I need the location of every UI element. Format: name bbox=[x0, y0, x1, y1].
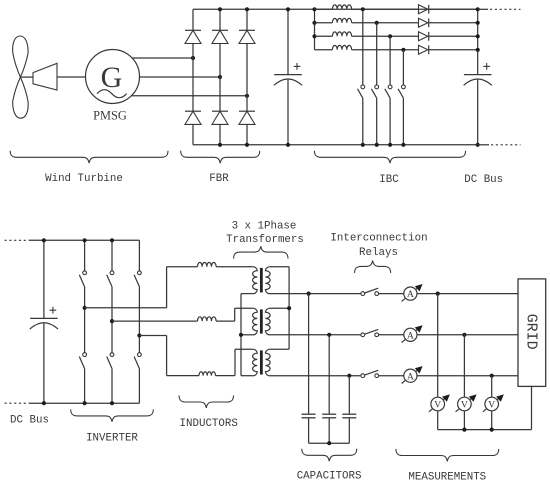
node phase c / FBR leg3 bbox=[245, 94, 249, 98]
wire line2 T2 to relay bbox=[270, 334, 361, 336]
label FBR bbox=[209, 173, 229, 185]
node DC bus row4 bbox=[476, 48, 480, 52]
wire secondary neutral bbox=[288, 267, 290, 350]
brace INDUCTORS bbox=[179, 396, 233, 408]
label PMSG bbox=[93, 109, 127, 123]
node capacitor bus centre bbox=[327, 441, 331, 445]
node IBC row4 switch tap bbox=[401, 48, 405, 52]
wire T1 secondary top lead bbox=[270, 266, 289, 268]
capacitor C4 bbox=[302, 414, 316, 418]
wire voltmeter V2 bottom lead bbox=[463, 411, 465, 430]
wire IBC input vertical bbox=[314, 9, 316, 50]
node line1 voltmeter tap bbox=[436, 292, 440, 296]
wire inverter rail top bbox=[29, 239, 140, 241]
wire DC bus vertical bbox=[477, 9, 479, 74]
svg-text:3 x 1Phase: 3 x 1Phase bbox=[232, 221, 297, 233]
label DC Bus (top) bbox=[464, 174, 503, 186]
diode D4 bbox=[185, 111, 201, 124]
wire IBC row4 right segment bbox=[429, 49, 478, 51]
wire line3 T3 to relay bbox=[270, 375, 361, 377]
ammeter A3 bbox=[402, 366, 423, 383]
wire FBR negative rail (bottom) bbox=[193, 144, 478, 146]
wire FBR leg1 middle segment bbox=[192, 44, 194, 112]
brace Wind Turbine bbox=[10, 151, 168, 163]
node C3 top rail bbox=[42, 238, 46, 242]
wire IBC row4 left segment bbox=[315, 49, 333, 51]
node C2 bottom rail bbox=[476, 143, 480, 147]
node IBC row2 switch tap bbox=[375, 21, 379, 25]
wire ammeter A3 to grid bbox=[417, 375, 518, 377]
node IBC row3 switch tap bbox=[388, 34, 392, 38]
wire C1 top lead bbox=[287, 9, 289, 74]
wire IBC row2 left segment bbox=[315, 22, 333, 24]
node DC bus row1 bbox=[476, 7, 480, 11]
label Relays bbox=[359, 247, 398, 259]
brace INVERTER bbox=[71, 409, 154, 421]
wire C4 bottom lead bbox=[308, 418, 310, 443]
transformer T2 bbox=[253, 308, 271, 335]
wire voltmeter V1 bottom lead bbox=[437, 411, 439, 430]
label IBC bbox=[379, 174, 399, 186]
wire T3 primary bottom lead bbox=[241, 375, 253, 377]
node IBC input row3 bbox=[312, 34, 316, 38]
node inverter leg2 top rail bbox=[110, 238, 114, 242]
wire voltmeter V3 bottom lead bbox=[491, 411, 493, 430]
node line3 capacitor tap bbox=[347, 374, 351, 378]
node DC bus row3 bbox=[476, 34, 480, 38]
wire IBC row2 right segment bbox=[429, 22, 478, 24]
node FBR bottom rail leg2 bbox=[218, 143, 222, 147]
wind turbine nacelle bbox=[33, 63, 57, 90]
capacitor C3 (DC bus) bbox=[30, 318, 58, 329]
wire C5 bottom lead bbox=[328, 418, 330, 443]
wire phase1 to inductor bbox=[167, 266, 198, 268]
node inverter leg2 output bbox=[110, 319, 114, 323]
wire generator phase a bbox=[132, 57, 193, 59]
inductor L1 bbox=[332, 5, 351, 9]
wire phase3 to T3 bbox=[235, 348, 253, 350]
wire FBR positive rail (top) bbox=[193, 8, 478, 10]
label INDUCTORS bbox=[180, 418, 238, 430]
transformer T1 bbox=[253, 267, 271, 294]
svg-text:A: A bbox=[407, 330, 414, 341]
svg-text:IBC: IBC bbox=[379, 174, 399, 186]
wire turbine hub to nacelle bbox=[20, 76, 33, 78]
wire C3 top lead bbox=[43, 240, 45, 318]
wire relay K1 to ammeter bbox=[378, 293, 403, 295]
switch S3 (inverter high side) bbox=[134, 240, 141, 335]
voltmeter V3 bbox=[483, 394, 504, 411]
wire primary neutral bbox=[240, 294, 242, 376]
diode D1 bbox=[185, 30, 201, 43]
wind turbine rotor blades bbox=[13, 36, 29, 118]
wire phase3 dropper bbox=[166, 336, 168, 376]
switch Q2 (IBC) bbox=[371, 23, 378, 145]
wire IBC row1 left segment bbox=[315, 8, 333, 10]
wire voltmeter V2 drop bbox=[463, 335, 465, 397]
wire C5 top lead bbox=[328, 335, 330, 414]
brace FBR bbox=[181, 151, 260, 163]
wire phase2 inductor to riser bbox=[216, 320, 235, 322]
svg-text:G: G bbox=[101, 61, 123, 94]
wire T2 secondary top lead bbox=[270, 307, 289, 309]
wire ammeter A2 to grid bbox=[417, 334, 518, 336]
inductor L4 bbox=[332, 45, 351, 49]
wire IBC row3 mid segment bbox=[352, 35, 419, 37]
svg-text:A: A bbox=[407, 371, 414, 382]
node line2 capacitor tap bbox=[327, 333, 331, 337]
inductor L2 bbox=[332, 18, 351, 22]
brace MEASUREMENTS bbox=[396, 449, 499, 461]
wire FBR leg1 lower segment bbox=[192, 124, 194, 144]
capacitor C6 bbox=[342, 414, 356, 418]
label Transformers bbox=[226, 234, 304, 246]
wire T1 primary bottom lead bbox=[241, 293, 253, 295]
wire IBC row4 mid segment bbox=[352, 49, 419, 51]
node voltmeter bus V3 bbox=[490, 428, 494, 432]
svg-text:DC Bus: DC Bus bbox=[464, 174, 503, 186]
wire voltmeter V1 drop bbox=[437, 294, 439, 398]
svg-text:Interconnection: Interconnection bbox=[330, 233, 427, 245]
wire C6 top lead bbox=[348, 376, 350, 415]
diode D3 bbox=[239, 30, 255, 43]
relay K3 bbox=[361, 370, 379, 377]
transformer T3 bbox=[253, 349, 271, 376]
diode D7 bbox=[419, 5, 429, 14]
wire DC bus continuation (top, dashed) bbox=[478, 8, 521, 10]
svg-text:FBR: FBR bbox=[209, 173, 229, 185]
voltmeter V1 bbox=[429, 394, 450, 411]
inductor L6 bbox=[198, 317, 217, 321]
wire IBC row1 mid segment bbox=[352, 8, 419, 10]
wire C2 bottom lead bbox=[477, 80, 479, 145]
inductor L7 bbox=[199, 372, 216, 376]
node DC bus row2 bbox=[476, 21, 480, 25]
capacitor C2 (DC bus) bbox=[464, 75, 492, 86]
svg-text:Wind Turbine: Wind Turbine bbox=[45, 173, 123, 185]
label CAPACITORS bbox=[297, 470, 362, 482]
node IBC row1 switch tap bbox=[361, 7, 365, 11]
wire FBR leg1 upper segment bbox=[192, 9, 194, 30]
node C3 bottom rail bbox=[42, 401, 46, 405]
wire C6 bottom lead bbox=[348, 418, 350, 443]
wire phase3 inverter segment bbox=[139, 335, 166, 337]
wire C4 top lead bbox=[308, 294, 310, 415]
switch Q4 (IBC) bbox=[398, 50, 405, 145]
node line1 capacitor tap bbox=[307, 292, 311, 296]
node FBR bottom rail leg3 bbox=[245, 143, 249, 147]
wire phase1 riser bbox=[166, 267, 168, 308]
wire FBR leg2 lower segment bbox=[219, 124, 221, 144]
wire voltmeter common bus bbox=[438, 429, 532, 431]
ammeter A2 bbox=[402, 325, 423, 342]
node inverter leg1 bottom rail bbox=[83, 401, 87, 405]
wire FBR leg2 upper segment bbox=[219, 9, 221, 30]
svg-text:INVERTER: INVERTER bbox=[86, 432, 138, 444]
label MEASUREMENTS bbox=[408, 471, 486, 483]
svg-text:MEASUREMENTS: MEASUREMENTS bbox=[408, 471, 486, 483]
wire FBR leg3 lower segment bbox=[246, 124, 248, 144]
wire capacitor common bus bbox=[309, 442, 350, 444]
label Wind Turbine bbox=[45, 173, 123, 185]
diode D2 bbox=[212, 30, 228, 43]
node IBC input row1 bbox=[312, 7, 316, 11]
diode D5 bbox=[212, 111, 228, 124]
switch S5 (inverter low side) bbox=[107, 321, 114, 403]
wire phase3 to inductor bbox=[167, 375, 199, 377]
capacitor C1 polarity label + bbox=[294, 63, 301, 70]
ammeter A1 bbox=[402, 284, 423, 301]
label Interconnection bbox=[330, 233, 427, 245]
svg-text:A: A bbox=[407, 289, 414, 300]
node inverter leg1 top rail bbox=[83, 238, 87, 242]
node line3 voltmeter tap bbox=[490, 374, 494, 378]
wire FBR leg2 middle segment bbox=[219, 44, 221, 112]
wire phase3 riser bbox=[234, 349, 236, 375]
svg-text:Transformers: Transformers bbox=[226, 234, 304, 246]
wire DC bus rail bottom (dashed left) bbox=[5, 402, 29, 404]
label 3 x 1Phase bbox=[232, 221, 297, 233]
node inverter leg2 bottom rail bbox=[110, 401, 114, 405]
node IBC switch4 bottom rail bbox=[401, 143, 405, 147]
wire IBC row3 left segment bbox=[315, 35, 333, 37]
capacitor C3 (DC bus) polarity label + bbox=[50, 307, 57, 314]
wire phase3 inductor to riser bbox=[216, 375, 236, 377]
capacitor C2 (DC bus) polarity label + bbox=[483, 63, 490, 70]
node IBC switch1 bottom rail bbox=[361, 143, 365, 147]
wire nacelle to generator bbox=[57, 76, 86, 78]
node primary neutral T2 bbox=[239, 333, 243, 337]
wire FBR leg3 upper segment bbox=[246, 9, 248, 30]
label INVERTER bbox=[86, 432, 138, 444]
inductor L5 bbox=[198, 262, 217, 266]
switch S2 (inverter high side) bbox=[107, 240, 114, 321]
label DC Bus (bottom) bbox=[10, 414, 49, 426]
grid (utility) box bbox=[518, 279, 546, 387]
svg-text:V: V bbox=[461, 400, 468, 411]
node inverter leg3 output bbox=[137, 333, 141, 337]
relay K1 bbox=[361, 288, 379, 295]
wire C3 bottom lead bbox=[43, 323, 45, 403]
node secondary neutral T2 bbox=[287, 306, 291, 310]
node C1 bottom rail bbox=[286, 143, 290, 147]
wire phase2 to T2 bbox=[235, 307, 253, 309]
wire generator phase c bbox=[132, 95, 247, 97]
node IBC switch2 bottom rail bbox=[375, 143, 379, 147]
diode D6 bbox=[239, 111, 255, 124]
svg-text:CAPACITORS: CAPACITORS bbox=[297, 470, 362, 482]
svg-text:PMSG: PMSG bbox=[93, 109, 127, 123]
wire T3 secondary top lead bbox=[270, 348, 289, 350]
node phase a / FBR leg1 bbox=[191, 56, 195, 60]
wire relay K2 to ammeter bbox=[378, 334, 403, 336]
node phase b / FBR leg2 bbox=[218, 75, 222, 79]
brace Interconnection Relays bbox=[355, 261, 391, 273]
capacitor C1 bbox=[274, 75, 302, 86]
wire inverter rail bottom bbox=[29, 402, 140, 404]
wire IBC row3 right segment bbox=[429, 35, 478, 37]
wire FBR leg3 middle segment bbox=[246, 44, 248, 112]
switch S1 (inverter high side) bbox=[79, 240, 86, 307]
wire phase2 inverter to inductor bbox=[112, 320, 198, 322]
brace CAPACITORS bbox=[302, 449, 357, 461]
wire voltmeter bus to grid bbox=[531, 386, 533, 429]
node line2 voltmeter tap bbox=[462, 333, 466, 337]
relay K2 bbox=[361, 329, 379, 336]
node IBC input row2 bbox=[312, 21, 316, 25]
switch Q1 (IBC) bbox=[358, 9, 365, 145]
svg-text:DC Bus: DC Bus bbox=[10, 414, 49, 426]
wire phase1 inverter to riser bbox=[85, 307, 167, 309]
switch S4 (inverter low side) bbox=[79, 308, 86, 403]
wire IBC row1 right segment bbox=[429, 8, 478, 10]
diode D8 bbox=[419, 18, 429, 27]
wire phase1 inductor to T1 bbox=[216, 266, 253, 268]
capacitor C5 bbox=[322, 414, 336, 418]
wire DC bus rail top (dashed left) bbox=[5, 239, 29, 241]
node inverter leg1 output bbox=[83, 306, 87, 310]
switch Q3 (IBC) bbox=[385, 36, 392, 145]
node IBC switch3 bottom rail bbox=[388, 143, 392, 147]
wire ammeter A1 to grid bbox=[417, 293, 518, 295]
wire phase2 riser bbox=[234, 308, 236, 321]
svg-text:GRID: GRID bbox=[522, 314, 539, 350]
inductor L3 bbox=[332, 32, 351, 36]
wire line1 T1 to relay bbox=[270, 293, 361, 295]
wire generator phase b bbox=[140, 76, 221, 78]
wire T2 primary bottom lead bbox=[241, 334, 253, 336]
svg-text:INDUCTORS: INDUCTORS bbox=[180, 418, 238, 430]
voltmeter V2 bbox=[456, 394, 477, 411]
node C1 top rail bbox=[286, 7, 290, 11]
node voltmeter bus V2 bbox=[462, 428, 466, 432]
wire relay K3 to ammeter bbox=[378, 375, 403, 377]
diode D10 bbox=[419, 45, 429, 54]
svg-text:Relays: Relays bbox=[359, 247, 398, 259]
wire C1 bottom lead bbox=[287, 80, 289, 145]
wire IBC row2 mid segment bbox=[352, 22, 419, 24]
svg-text:V: V bbox=[434, 400, 441, 411]
svg-text:V: V bbox=[488, 400, 495, 411]
wire DC bus continuation (bottom, dashed) bbox=[478, 144, 521, 146]
brace IBC bbox=[314, 151, 465, 163]
brace 3x1Phase Transformers bbox=[234, 246, 288, 258]
wire voltmeter V3 drop bbox=[491, 376, 493, 398]
diode D9 bbox=[419, 32, 429, 41]
switch S6 (inverter low side) bbox=[134, 336, 141, 404]
generator G (PMSG) bbox=[86, 50, 140, 104]
node FBR top rail leg3 bbox=[245, 7, 249, 11]
node FBR top rail leg2 bbox=[218, 7, 222, 11]
